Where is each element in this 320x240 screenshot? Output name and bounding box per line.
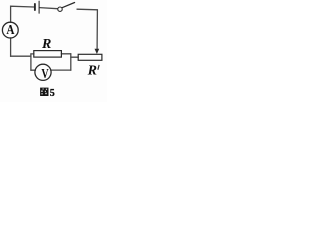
wire junction vertical down to bottom loop	[70, 54, 72, 70]
wire top-left corner from ammeter up and right	[11, 6, 34, 22]
ammeter A circle	[2, 22, 18, 38]
label R' prime tick	[98, 65, 99, 69]
wire switch to top-right corner and down right side	[77, 9, 97, 49]
caption 图 glyph (drawn)	[40, 88, 48, 96]
wire ammeter bottom vertical	[10, 38, 12, 56]
voltmeter V circle	[35, 64, 51, 80]
switch S pivot circle	[58, 7, 62, 11]
resistor R box	[34, 51, 62, 58]
svg-text:A: A	[6, 22, 15, 37]
arrowhead of rheostat wiper pointing down onto R' box	[95, 49, 100, 54]
svg-text:5: 5	[50, 88, 55, 99]
wire R' box left stub to junction	[71, 56, 78, 58]
wire battery to switch	[40, 8, 58, 9]
battery B1 short thick plate	[34, 4, 36, 10]
svg-text:R: R	[87, 63, 97, 78]
voltmeter left wire	[31, 69, 36, 71]
wire left horizontal from ammeter branch	[11, 55, 31, 57]
rheostat R' box	[78, 54, 102, 60]
wire left branch vertical down to voltmeter level	[30, 54, 32, 70]
svg-text:V: V	[41, 65, 48, 81]
battery B1 long thin plate	[38, 1, 40, 13]
switch S lever (open)	[62, 3, 75, 8]
wire resistor R left stub	[31, 53, 34, 55]
voltmeter right wire	[51, 69, 71, 71]
wire resistor R right side to junction	[61, 53, 70, 55]
svg-text:R: R	[41, 37, 51, 52]
